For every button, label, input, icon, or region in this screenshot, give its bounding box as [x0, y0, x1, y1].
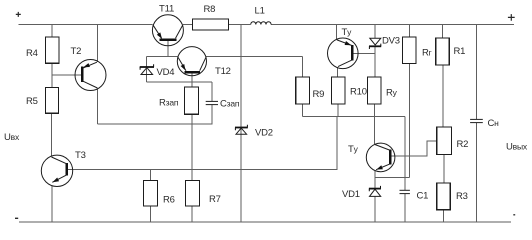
transistor T2 — [75, 60, 106, 91]
svg-text:Ту: Ту — [348, 144, 359, 155]
capacitor Czap — [206, 101, 218, 104]
wire L1 to + right end of top rail — [271, 24, 514, 26]
svg-text:VD4: VD4 — [157, 67, 175, 78]
svg-text:Rзап: Rзап — [159, 98, 179, 109]
wire VD4 vertical — [146, 56, 148, 82]
svg-text:T12: T12 — [215, 66, 231, 77]
wire R4-R5 junction — [51, 63, 53, 87]
transistor T11 — [152, 15, 183, 46]
svg-text:R2: R2 — [457, 139, 469, 150]
wire R1 to R2 — [442, 65, 444, 127]
wire T2 base from R4-R5 divider — [52, 74, 81, 76]
svg-text:L1: L1 — [255, 6, 265, 17]
diode VD2 — [235, 125, 248, 134]
transistor T3 — [41, 155, 72, 186]
svg-text:T2: T2 — [71, 46, 82, 57]
svg-text:VD2: VD2 — [255, 128, 273, 139]
resistor Rr — [403, 37, 416, 63]
transistor Ty lower — [366, 143, 395, 172]
svg-text:R3: R3 — [456, 191, 468, 202]
transistor T12 — [177, 47, 206, 76]
node minus right — [513, 214, 515, 216]
svg-text:Rу: Rу — [386, 88, 398, 99]
wire T11 collector to R8 — [183, 24, 193, 26]
wire Ty1 collector to R10 top — [337, 67, 339, 77]
wire C1 branch upper — [404, 116, 406, 190]
resistor R2 — [437, 127, 452, 155]
wire R5 bottom to T3 collector — [50, 113, 52, 156]
capacitor Cn — [470, 119, 483, 122]
diode VD1 — [369, 186, 381, 197]
wire y177 emitter node — [375, 176, 409, 178]
svg-text:Uвых: Uвых — [506, 142, 528, 153]
wire R7 bottom lead — [191, 206, 193, 222]
wire R9 top lead — [302, 57, 304, 77]
wire DV3 to Ry top — [374, 47, 376, 78]
wire R9 bottom lead — [302, 104, 304, 116]
wire T3 emitter to bottom rail — [51, 186, 53, 222]
wire node y116 R9 to C1 line — [303, 115, 406, 117]
svg-text:T3: T3 — [75, 150, 86, 161]
wire R3 bottom lead — [443, 210, 445, 222]
wire Ry bottom to Ty2 collector — [374, 104, 376, 144]
resistor R3 — [437, 183, 451, 210]
wire R2 to R3 — [443, 155, 445, 183]
wire R1 top lead — [442, 25, 444, 39]
wire R10 bottom lead — [337, 104, 339, 116]
wire y56 VD4 to T12 emitter — [147, 55, 178, 57]
svg-text:Ту: Ту — [342, 27, 353, 38]
resistor R1 — [436, 38, 450, 65]
svg-text:Сзап: Сзап — [220, 99, 240, 110]
wire Cn line lower — [475, 123, 477, 222]
svg-text:R8: R8 — [204, 4, 216, 15]
resistor Rzap — [185, 87, 199, 114]
svg-text:R1: R1 — [454, 46, 466, 57]
wire Ty1 base to DV3 line — [353, 52, 375, 54]
svg-text:T11: T11 — [159, 4, 174, 15]
wire R6 bottom lead — [150, 206, 152, 222]
wire T12 collector to R9 — [206, 56, 302, 58]
wire VD1 to bottom rail — [374, 197, 376, 222]
svg-text:Rг: Rг — [422, 48, 432, 59]
svg-text:R5: R5 — [26, 96, 38, 107]
wire Cn line upper — [475, 25, 477, 120]
svg-text:R4: R4 — [26, 48, 38, 59]
wire Rr bottom long lead — [408, 64, 410, 178]
resistor R6 — [144, 180, 158, 206]
resistor R4 — [46, 37, 60, 63]
resistor R5 — [46, 88, 59, 114]
svg-text:R10: R10 — [350, 87, 367, 98]
wire T11 base down — [167, 40, 169, 56]
wire DV3 line rail to Ry — [374, 25, 376, 39]
wire T2 collector down — [97, 88, 99, 124]
wire R4 top lead — [51, 25, 53, 38]
wire T12 base to Rzap — [191, 73, 193, 87]
svg-text:Uвх: Uвх — [4, 132, 20, 143]
svg-text:R9: R9 — [313, 89, 325, 100]
wire Czap top to node y82 — [211, 82, 213, 101]
wire T2 emitter up to rail — [96, 25, 98, 63]
wire top rail left — [19, 24, 153, 26]
wire VD2 line — [240, 25, 242, 223]
capacitor C1 — [400, 190, 410, 193]
diode VD4 — [140, 64, 154, 74]
wire Rzap bottom to R7 — [191, 114, 193, 180]
transistor Ty upper — [328, 38, 359, 69]
resistor R9 — [296, 77, 310, 104]
node minus left — [15, 217, 18, 219]
svg-text:R6: R6 — [163, 195, 175, 206]
resistor R10 — [331, 77, 345, 104]
resistor R7 — [185, 180, 199, 206]
svg-text:C1: C1 — [417, 191, 429, 202]
wire C1 branch lower — [404, 194, 406, 222]
wire y82 VD4 to Czap — [147, 81, 212, 83]
resistor R8 — [193, 19, 229, 30]
svg-text:R7: R7 — [209, 194, 221, 205]
wire bottom rail — [19, 221, 511, 223]
node plus right — [508, 14, 515, 21]
wire node y124 to Czap — [98, 105, 212, 124]
wire feedback T3 base to R10 node — [68, 116, 337, 169]
svg-text:VD1: VD1 — [342, 189, 360, 200]
zener DV3 — [369, 38, 381, 49]
wire Ty2 base to R2 tap — [391, 141, 437, 156]
resistor Ry — [368, 77, 382, 104]
wire Ty2 emitter to VD1 — [374, 170, 376, 188]
svg-text:Сн: Сн — [488, 118, 500, 129]
node plus left — [16, 12, 21, 17]
wire R6 top lead — [150, 170, 152, 181]
svg-text:DV3: DV3 — [382, 36, 400, 47]
inductor L1 — [251, 22, 271, 25]
wire R8 to L1 — [229, 24, 251, 26]
wire Rr top lead — [408, 25, 410, 38]
wire Ty1 emitter to rail — [336, 25, 338, 40]
